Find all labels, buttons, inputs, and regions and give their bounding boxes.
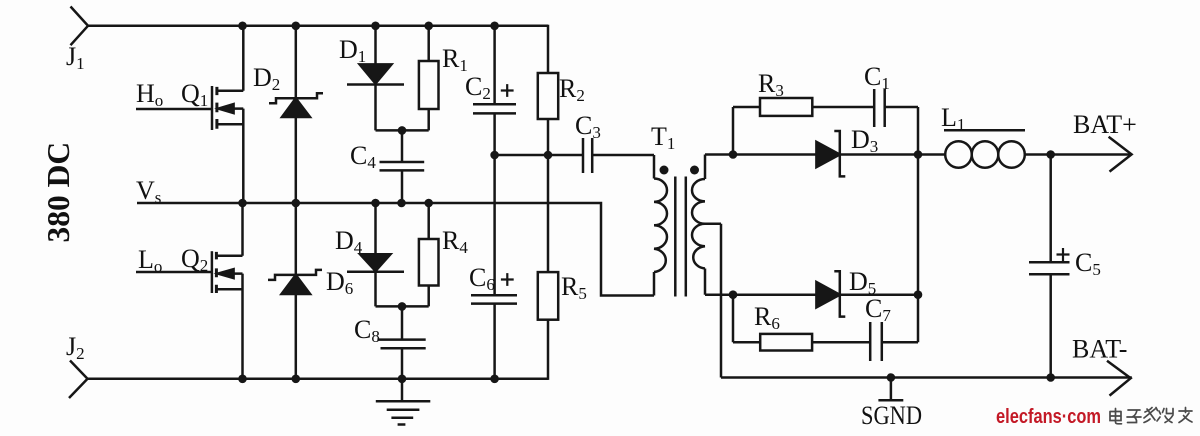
ground SGND xyxy=(878,378,903,401)
svg-text:BAT+: BAT+ xyxy=(1073,110,1137,139)
watermark elecfans.com xyxy=(996,406,1101,428)
node secondary top xyxy=(729,150,738,159)
diode D5 (schottky) xyxy=(816,271,918,316)
svg-text:R2: R2 xyxy=(559,74,585,105)
resistor R6 branch xyxy=(733,295,870,351)
capacitor C5 xyxy=(1029,155,1070,378)
zener diode D2 xyxy=(269,26,323,203)
wire J2 lead / bottom rail xyxy=(88,378,549,381)
svg-text:Vs: Vs xyxy=(136,176,161,207)
svg-text:R1: R1 xyxy=(442,44,468,75)
svg-text:T1: T1 xyxy=(651,122,675,153)
wire Lo gate lead xyxy=(136,271,212,274)
phase dot primary xyxy=(660,166,669,175)
node Vs D2D6 xyxy=(292,199,301,208)
plus sign C2 xyxy=(501,84,514,97)
svg-text:Q1: Q1 xyxy=(181,79,208,110)
transistor Q1 xyxy=(212,26,243,203)
inductor L1 xyxy=(918,141,1131,168)
svg-text:J1: J1 xyxy=(66,42,85,73)
capacitor C6 xyxy=(471,155,517,379)
node SGND xyxy=(887,373,896,382)
svg-text:D2: D2 xyxy=(253,63,280,94)
svg-text:C2: C2 xyxy=(465,72,491,103)
node Vs R4 xyxy=(424,199,433,208)
connector J2 xyxy=(69,361,88,399)
svg-text:SGND: SGND xyxy=(861,401,922,430)
svg-text:C8: C8 xyxy=(354,315,380,346)
connector BAT- arrow xyxy=(1107,361,1131,396)
node R2 mid xyxy=(544,151,553,160)
capacitor C8 xyxy=(377,306,425,378)
resistor R1 xyxy=(402,26,439,131)
node L1 out xyxy=(1046,150,1055,159)
svg-text:D1: D1 xyxy=(339,35,366,66)
svg-text:D3: D3 xyxy=(851,125,878,156)
node top rail D1 xyxy=(371,22,380,31)
L1 label underline xyxy=(944,129,1025,132)
zener diode D6 xyxy=(268,203,322,379)
svg-text:BAT-: BAT- xyxy=(1072,335,1127,364)
capacitor C3 xyxy=(583,138,654,173)
transistor Q2 xyxy=(212,203,243,379)
svg-text:C3: C3 xyxy=(575,111,601,142)
resistor R3 branch xyxy=(733,98,874,155)
wire top rail drop to R2 xyxy=(547,25,550,73)
plus sign C5 xyxy=(1057,248,1070,261)
diode D4 xyxy=(347,203,404,306)
wire SGND rail xyxy=(721,376,1132,379)
node Vs C4 xyxy=(397,199,406,208)
wire Ho gate lead xyxy=(136,108,212,111)
svg-text:C5: C5 xyxy=(1075,248,1101,279)
wire secondary bottom to D5 xyxy=(733,293,816,296)
node bottom rail ground xyxy=(398,375,407,384)
resistor R2 xyxy=(538,73,558,155)
svg-text:R6: R6 xyxy=(754,302,780,333)
node Vs D4 xyxy=(371,199,380,208)
node top rail Q1 xyxy=(238,22,247,31)
svg-text:380 DC: 380 DC xyxy=(41,142,76,243)
wire Vs rail xyxy=(137,203,654,296)
diode D1 xyxy=(347,26,404,131)
node top rail D2 xyxy=(292,22,301,31)
node D5 out xyxy=(914,290,923,299)
svg-text:Q2: Q2 xyxy=(181,244,208,275)
capacitor C4 xyxy=(380,130,425,203)
svg-text:C1: C1 xyxy=(864,62,890,93)
wire top rail xyxy=(88,25,548,28)
node top rail C2 xyxy=(490,22,499,31)
phase dot secondary xyxy=(690,166,699,175)
node Vs Q1Q2 xyxy=(238,199,247,208)
node D3 C1 xyxy=(914,150,923,159)
node bottom rail Q2 xyxy=(238,375,247,384)
svg-text:R4: R4 xyxy=(442,226,468,257)
svg-text:Lo: Lo xyxy=(138,245,162,276)
node bottom rail D6 xyxy=(292,375,301,384)
watermark chinese 电子发烧友 xyxy=(1110,408,1192,424)
svg-text:C4: C4 xyxy=(350,141,376,172)
diode D3 (schottky) xyxy=(816,131,918,176)
transformer T1 primary xyxy=(654,155,667,296)
svg-text:J2: J2 xyxy=(66,332,85,363)
svg-text:elecfans·com: elecfans·com xyxy=(996,406,1101,428)
svg-text:C7: C7 xyxy=(865,294,891,325)
node C5 bottom xyxy=(1046,373,1055,382)
wire secondary top to D3 xyxy=(733,153,816,156)
svg-text:R3: R3 xyxy=(758,69,784,100)
node secondary bottom xyxy=(729,290,738,299)
connector BAT+ arrow xyxy=(1109,137,1132,172)
svg-text:D4: D4 xyxy=(335,226,363,257)
svg-text:L1: L1 xyxy=(941,103,965,134)
transformer T1 core xyxy=(675,177,686,297)
node top rail R1 xyxy=(424,22,433,31)
plus sign C6 xyxy=(501,273,514,286)
node D4-R4-C8 xyxy=(398,302,407,311)
capacitor C1 xyxy=(874,89,918,155)
ground (main) xyxy=(376,379,431,425)
wire bottom rail rise to R5 xyxy=(547,320,550,380)
wire mid node line xyxy=(495,154,583,157)
node C2 mid xyxy=(490,151,499,160)
capacitor C2 xyxy=(473,26,516,155)
node D1-R1-C4 xyxy=(398,126,407,135)
resistor R4 xyxy=(402,203,439,306)
node bottom rail C6 xyxy=(490,375,499,384)
resistor R5 xyxy=(538,155,558,320)
svg-text:R5: R5 xyxy=(561,272,587,303)
capacitor C7 xyxy=(870,322,918,361)
wire D3 node down to C7 xyxy=(917,155,920,343)
svg-text:Ho: Ho xyxy=(136,79,163,110)
connector J1 xyxy=(71,7,89,46)
transformer T1 secondary xyxy=(692,155,733,378)
svg-text:C6: C6 xyxy=(469,263,495,294)
